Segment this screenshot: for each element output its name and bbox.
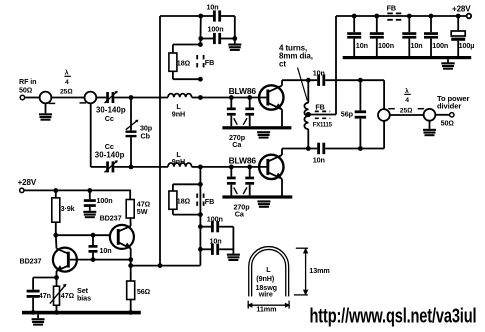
capacitor C17 100u electrolytic [451,14,474,56]
capacitor C21 10n bias [89,233,112,262]
node A junction [129,95,134,100]
bus junction dots [31,310,36,315]
svg-text:25Ω: 25Ω [60,89,72,96]
Q2 emitter riser [281,179,283,196]
svg-text:BD237: BD237 [100,213,122,222]
transistor Q2 BLW86 [229,155,284,179]
capacitor Ca4 270p [243,165,254,196]
svg-text:ct: ct [279,59,286,68]
svg-text:10n: 10n [356,41,368,50]
bias feed vertical wire [159,16,161,266]
label 270p Ca top [229,133,246,149]
resistor R1 18ohm with ferrite bead FB1 box top [169,42,203,82]
capacitor C14 100n rail [370,14,394,56]
svg-text:10n: 10n [411,41,423,50]
capacitor Ca2 270p [243,95,254,126]
svg-text:BLW86: BLW86 [229,155,257,165]
trimmer capacitor Cc1 30-140p [96,91,126,123]
ferrite bead FB3 on rail [387,4,402,20]
label 270p Ca bottom [234,203,251,219]
svg-text:bias: bias [77,294,91,303]
capacitor C12 56p [341,78,366,151]
svg-text:100n: 100n [432,41,448,50]
capacitor C20 100n bias [84,188,113,211]
ground at input line [39,103,52,120]
svg-text:4: 4 [405,97,409,104]
Q4 base wire [70,259,131,261]
svg-text:9nH: 9nH [172,109,185,118]
svg-text:3·9k: 3·9k [61,204,75,213]
output corner wires [383,80,385,148]
svg-text:11mm: 11mm [256,304,276,313]
wire node A to L1 (crosses bias line) [131,97,168,99]
svg-text:56p: 56p [341,110,354,119]
ferrite bead FB4 dashes [197,194,203,208]
ground column top-left [228,16,241,51]
RF input terminal J1 [19,77,36,100]
svg-text:100n: 100n [97,196,113,205]
top collector wire [282,79,317,81]
ground at rail bus [441,59,454,69]
branch wire from input line down [90,103,92,167]
dimension 11mm [247,301,290,314]
svg-text:+28V: +28V [452,5,471,14]
junction transformer bottom [306,146,311,151]
capacitor C13 10n rail [347,14,368,56]
hairpin inductor detail drawing L [250,248,287,298]
transistor Q4 BD237 (sensor, mirrored) [20,248,77,272]
svg-text:Cb: Cb [141,131,151,140]
bottom collector wire [282,148,317,150]
svg-text:λ: λ [65,69,69,77]
+28V vertical feed to center tap [335,16,337,115]
Q3 emitter riser [130,248,132,265]
capacitor C19 10n bottom network [198,237,233,255]
transistor Q1 BLW86 [229,85,284,109]
svg-text:10n: 10n [313,156,325,165]
trimmer capacitor Cb 30p [126,120,153,141]
svg-text:wire: wire [258,289,273,298]
junction Q3 emitter node [128,257,133,262]
capacitor C22 47n [27,278,51,313]
capacitor C11 10n output bottom [313,143,384,165]
output terminal J2 to power divider [435,94,469,128]
Q1 emitter riser [281,109,283,127]
node C junction top base [198,95,203,100]
svg-text:47n: 47n [39,291,51,300]
capacitor C18 100n bottom network [198,214,233,232]
wire base node D to BLW86 Q2 base [200,166,266,168]
wire node A down to Cb [130,98,132,131]
wire Cb to node B [130,137,132,167]
wire L1 to base node [192,97,201,99]
ferrite bead FB2 on center tap [315,111,330,118]
rail ground bus bar [343,56,472,59]
svg-text:Ca: Ca [232,140,242,149]
capacitor C15 10n rail [402,14,422,56]
resistor R4 47ohm 5W [126,200,150,219]
svg-text:10n: 10n [313,69,325,78]
svg-text:18Ω: 18Ω [177,196,190,205]
svg-text:50Ω: 50Ω [19,86,32,95]
coax line TL1 lambda/4 25ohm input [40,69,97,104]
svg-text:4: 4 [65,79,69,86]
node B junction [129,165,134,170]
svg-text:10n: 10n [100,246,112,255]
junction base/3.9k [53,233,58,238]
dimension 13mm [294,248,330,296]
svg-text:30-140p: 30-140p [95,150,125,159]
ground bar bottom [222,195,292,198]
svg-text:25Ω: 25Ω [400,107,412,114]
svg-text:10n: 10n [207,3,219,12]
svg-text:100n: 100n [378,41,394,50]
top-left horizontal wire [160,15,213,17]
node D junction bottom base [198,165,203,170]
capacitor C10 10n output top [313,69,384,86]
ground column bottom network [227,227,240,261]
bias ground bus [22,311,141,315]
Q1 collector riser [281,80,283,85]
svg-text:http://www.qsl.net/va3iul: http://www.qsl.net/va3iul [310,304,477,327]
coax line TL2 lambda/4 25ohm output [378,87,435,121]
ground bar top [222,126,291,129]
wire line to Cc1 [96,97,106,99]
svg-text:13mm: 13mm [309,266,329,275]
Q4 collector riser [55,235,58,248]
bias supply wire [24,190,130,199]
wire emitter to 47n [33,277,56,279]
svg-text:λ: λ [405,87,409,95]
wire input to line [25,97,40,99]
bias +28V terminal J4 [18,178,37,193]
transformer T1 winding [304,80,311,148]
svg-text:5W: 5W [137,207,148,216]
junction 100n top-left [198,36,203,41]
svg-text:BLW86: BLW86 [229,86,257,96]
potentiometer R5 47ohm set bias [50,284,91,313]
resistor R3 3.9k [52,188,75,235]
Q3 base wire [56,234,110,236]
junction bias feed [158,263,163,268]
resistor R2 18ohm with ferrite bead FB4 box bottom [169,182,203,217]
T1 labels [313,103,333,129]
Q2 collector riser [281,149,283,156]
svg-text:10n: 10n [210,237,222,246]
wire Cc1 to node A [114,97,131,99]
junction Q4 emitter [54,275,59,280]
svg-text:47Ω: 47Ω [61,291,74,300]
center tap wire [308,114,336,116]
capacitor Ca3 270p [227,165,237,196]
capacitor C16 100n rail [424,14,448,56]
capacitor 100n top-left [201,24,235,44]
junction top 10n [198,14,203,19]
ground symbol at top bar [257,131,270,138]
svg-text:100n: 100n [208,24,224,33]
svg-text:L: L [266,265,271,274]
Q4 emitter riser [56,271,58,286]
svg-text:(9nH): (9nH) [256,274,275,283]
junction transformer top [306,78,311,83]
svg-text:FB: FB [205,197,214,206]
svg-text:FX1115: FX1115 [313,123,333,129]
capacitor 10n top-left [207,3,235,22]
wire L2 to base node [192,166,201,168]
vertical line base column bottom [199,167,201,266]
svg-text:9nH: 9nH [172,157,185,166]
svg-text:BD237: BD237 [20,256,42,265]
svg-text:+28V: +28V [18,178,37,187]
ferrite bead FB1 dashes [197,55,203,69]
wire Cc2 to node B and to L2 [114,166,168,168]
svg-text:56Ω: 56Ω [137,287,150,296]
resistor R6 56ohm [127,266,150,313]
inductor L2 9nH [168,150,192,167]
ground symbol at bottom bar [257,200,270,207]
trimmer capacitor Cc2 30-140p [95,142,125,172]
+28V supply rail [336,15,466,17]
svg-text:100n: 100n [207,214,223,223]
Q3 collector riser [129,218,131,226]
svg-text:divider: divider [437,101,461,110]
svg-text:Ca: Ca [235,210,245,219]
svg-text:50Ω: 50Ω [441,118,454,127]
vertical line base column top [199,16,201,45]
capacitor Ca1 270p [227,95,237,126]
ground at C20 [83,211,96,218]
svg-text:Cc: Cc [105,114,114,123]
T1 callout 4 turns 8mm dia ct [279,43,313,100]
svg-text:18Ω: 18Ω [177,58,190,67]
svg-text:FB: FB [315,103,324,112]
svg-text:FB: FB [205,58,214,67]
ground at bias bus [32,314,45,325]
svg-text:FB: FB [387,4,396,13]
ground at output line [423,121,436,137]
transistor Q3 BD237 (driver) [100,213,134,249]
svg-text:100µ: 100µ [459,41,475,50]
+28V terminal J3 [452,5,471,19]
bias output wire [131,265,201,267]
inductor L1 9nH [168,94,192,119]
wire base node C to BLW86 Q1 base [200,97,266,99]
